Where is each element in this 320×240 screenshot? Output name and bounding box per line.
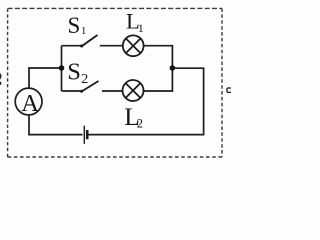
svg-text:1: 1 (138, 21, 144, 35)
svg-text:2: 2 (137, 117, 143, 131)
svg-text:S: S (68, 13, 81, 38)
svg-text:2: 2 (81, 72, 88, 87)
svg-text:A: A (21, 90, 39, 117)
svg-text:1: 1 (81, 25, 87, 37)
svg-text:S: S (67, 59, 81, 86)
